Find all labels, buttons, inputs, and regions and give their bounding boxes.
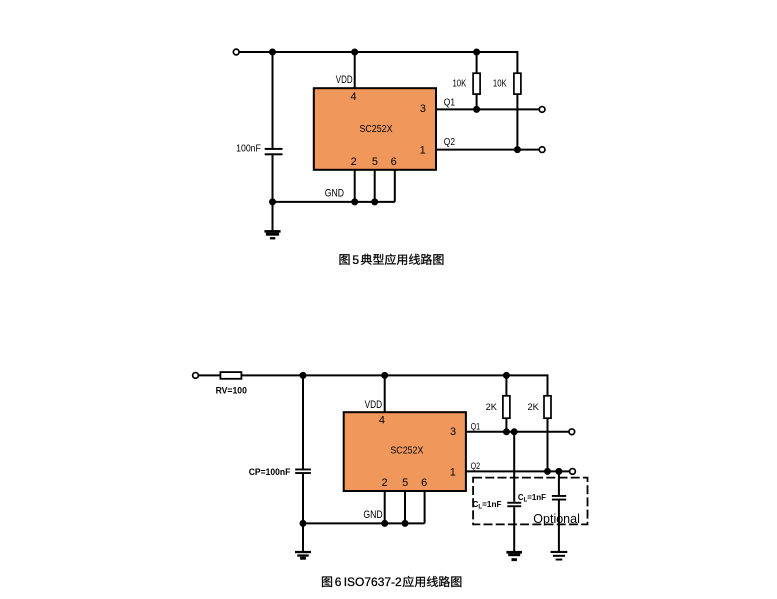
wire: CP top leg	[302, 375, 304, 468]
resistor R2 10K (fig5)	[514, 73, 521, 94]
svg-text:6: 6	[335, 575, 342, 589]
resistor RV=100 (fig6 series input)	[220, 372, 241, 379]
wire: fig6 input to RV	[199, 374, 221, 376]
resistor R4 2K (fig6)	[544, 396, 551, 418]
wire: CL2 bottom leg to ground	[558, 501, 560, 552]
wire: CL1 top leg from Q1 rail	[513, 432, 515, 502]
terminal: fig6 input	[193, 373, 199, 379]
junction: fig6 ground rail / pin5	[402, 520, 409, 527]
svg-text:CL=1nF: CL=1nF	[518, 492, 546, 503]
svg-text:2: 2	[381, 477, 387, 489]
svg-text:GND: GND	[363, 509, 383, 521]
wire: Q2 rail (fig6)	[466, 470, 570, 472]
wire: pin6 stub	[394, 170, 396, 202]
wire: fig5 ground rail	[273, 201, 395, 203]
svg-text:10K: 10K	[493, 78, 507, 89]
svg-text:6: 6	[391, 156, 397, 168]
terminal: fig5 Q1 output	[539, 107, 545, 113]
wire: pin2 stub	[354, 170, 356, 202]
ground symbol (fig6 left)	[295, 551, 311, 560]
junction: top rail / C1	[269, 49, 276, 56]
svg-text:CP=100nF: CP=100nF	[249, 467, 291, 478]
svg-text:5: 5	[402, 477, 408, 489]
wire: pin5 stub (fig6)	[404, 491, 406, 523]
wire: pin6 stub (fig6)	[424, 491, 426, 523]
wire: CL1 bottom leg to ground	[513, 507, 515, 551]
junction: Q1 rail / CL1	[511, 428, 518, 435]
svg-text:4: 4	[379, 415, 385, 427]
wire: 2K R3 top leg	[505, 375, 507, 395]
terminal: fig6 Q1 output	[569, 429, 575, 435]
wire: C1 top leg from rail	[272, 52, 274, 148]
junction: Q2 rail / CL2	[555, 468, 562, 475]
svg-text:Q2: Q2	[471, 461, 481, 471]
wire: R2 bottom leg to Q2 rail	[516, 94, 518, 150]
junction: fig6 ground rail / pin2	[381, 520, 388, 527]
svg-text:10K: 10K	[453, 78, 467, 89]
wire: Q1 rail (fig6)	[466, 431, 569, 433]
svg-text:ISO7637-2: ISO7637-2	[344, 575, 402, 589]
junction: fig6 rail / CP	[300, 372, 307, 379]
wire: 2K R3 bottom leg to Q1 rail	[505, 418, 507, 432]
svg-text:SC252X: SC252X	[390, 445, 423, 456]
wire: pin2 stub (fig6)	[384, 491, 386, 523]
caption: figure 5	[340, 253, 444, 267]
wire: VDD pin4 stub	[354, 52, 356, 88]
wire: CP bottom leg	[302, 474, 304, 523]
wire: fig6 top rail	[241, 374, 547, 376]
svg-text:VDD: VDD	[336, 74, 353, 86]
terminal: fig6 Q2 output	[570, 469, 576, 475]
junction: ground rail / pin2	[351, 198, 358, 205]
wire: Q1 output rail	[436, 108, 539, 110]
svg-text:Q1: Q1	[444, 97, 455, 108]
svg-text:3: 3	[420, 103, 426, 115]
wire: pin5 stub	[374, 170, 376, 202]
ground symbol (fig5)	[264, 230, 280, 239]
resistor R3 2K (fig6)	[503, 396, 510, 418]
svg-text:3: 3	[450, 426, 456, 438]
wire: 2K R4 bottom leg to Q2 rail	[547, 418, 549, 471]
junction: top rail / VDD pin	[351, 49, 358, 56]
caption: figure 6	[322, 575, 461, 589]
junction: Q1 rail / R1	[473, 106, 480, 113]
capacitor CP=100nF plates	[295, 469, 311, 471]
junction: Q2 rail / R4	[544, 468, 551, 475]
wire: CL2 top leg from Q2 rail	[558, 471, 560, 495]
junction: fig6 rail / 2K R3	[503, 372, 510, 379]
wire: C1 bottom leg to ground rail	[272, 155, 274, 202]
ground symbol (fig6 under CL1)	[506, 551, 522, 561]
resistor R1 10K (fig5)	[473, 73, 480, 94]
junction: Q2 rail / R2	[514, 146, 521, 153]
terminal: fig5 Q2 output	[539, 147, 545, 153]
dashed optional box	[473, 478, 587, 525]
svg-text:5: 5	[372, 156, 378, 168]
capacitor CL1 1nF plates	[507, 502, 521, 504]
junction: Q1 rail / R3	[503, 428, 510, 435]
svg-text:5: 5	[352, 253, 359, 267]
svg-text:SC252X: SC252X	[360, 124, 393, 135]
junction: fig6 rail / VDD	[381, 372, 388, 379]
svg-text:VDD: VDD	[365, 399, 383, 411]
junction: top rail / R1	[473, 49, 480, 56]
ground symbol (fig6 under CL2, 3-line)	[551, 551, 568, 561]
svg-text:Q2: Q2	[444, 137, 455, 148]
svg-text:GND: GND	[325, 187, 345, 199]
IC U2 SC252X (fig6)	[344, 412, 466, 491]
svg-text:100nF: 100nF	[236, 144, 261, 155]
wire: VDD pin4 stub (fig6)	[384, 375, 386, 412]
junction: fig6 ground rail / left	[300, 520, 307, 527]
svg-text:2: 2	[351, 156, 357, 168]
svg-text:2K: 2K	[528, 402, 540, 413]
wire: R1 bottom leg to Q1 rail	[476, 94, 478, 109]
svg-text:CL=1nF: CL=1nF	[473, 499, 502, 510]
capacitor CL2 1nF plates	[552, 495, 566, 497]
svg-text:Q1: Q1	[471, 422, 481, 432]
wire: ground stub below C1 junction	[272, 202, 274, 231]
svg-text:Optional: Optional	[533, 512, 580, 526]
IC U1 SC252X (fig5)	[314, 88, 436, 170]
wire: fig5 corner down to R2 top	[516, 51, 518, 73]
svg-text:RV=100: RV=100	[216, 385, 247, 396]
wire: fig5 top VDD rail	[240, 51, 518, 53]
wire: R1 top leg	[476, 52, 478, 73]
junction: ground rail / C1	[269, 198, 276, 205]
svg-text:4: 4	[350, 91, 356, 103]
svg-text:1: 1	[450, 466, 456, 478]
svg-text:1: 1	[420, 145, 426, 157]
wire: corner down to 2K R4 top	[547, 374, 549, 395]
wire: fig6 ground rail	[303, 522, 425, 524]
svg-text:2K: 2K	[486, 402, 498, 413]
svg-text:6: 6	[421, 477, 427, 489]
junction: ground rail / pin5	[371, 198, 378, 205]
capacitor C1 100nF plates	[265, 148, 283, 150]
wire: Q2 output rail	[436, 149, 539, 151]
wire: fig6 left ground stub	[302, 523, 304, 551]
terminal: fig5 input (open circle)	[233, 49, 239, 55]
